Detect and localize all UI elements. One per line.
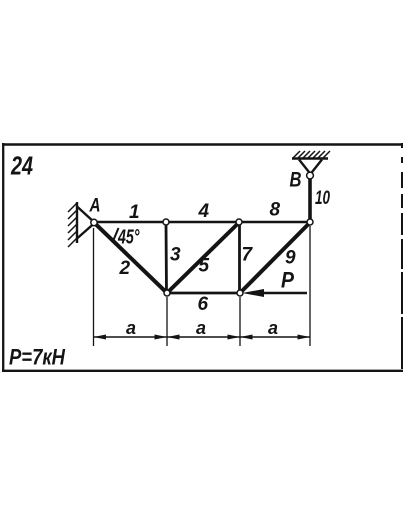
figure number 24 bbox=[10, 151, 33, 181]
member 10 (vertical B-T4) bbox=[308, 176, 312, 222]
member 2 (diagonal A-B1) bbox=[94, 223, 167, 294]
support link upper (wall to pin A) bbox=[77, 207, 94, 223]
svg-text:24: 24 bbox=[10, 151, 33, 181]
member label 7 bbox=[242, 245, 254, 266]
extension line below B2 bbox=[239, 297, 241, 346]
svg-text:5: 5 bbox=[199, 256, 210, 277]
svg-text:7: 7 bbox=[242, 245, 254, 266]
extension line below T4 bbox=[309, 226, 311, 346]
svg-text:1: 1 bbox=[129, 202, 140, 223]
member 1 (top chord A-T2) bbox=[94, 221, 166, 224]
member label 6 bbox=[198, 294, 209, 315]
member label 5 bbox=[199, 256, 210, 277]
support triangle at B bbox=[299, 160, 322, 175]
node A pin bbox=[91, 219, 97, 225]
dimension label a (middle) bbox=[196, 318, 206, 338]
support link lower (wall to pin A) bbox=[77, 224, 94, 239]
svg-text:P=7кН: P=7кН bbox=[9, 345, 66, 370]
member 6 (bottom chord B1-B2) bbox=[167, 292, 240, 295]
member 3 (vertical T2-B1) bbox=[165, 223, 168, 293]
dimension line bbox=[94, 336, 311, 338]
extension line below B1 bbox=[166, 297, 168, 346]
svg-text:a: a bbox=[196, 318, 206, 338]
ceiling hatching bbox=[293, 151, 330, 158]
node T2 bbox=[163, 219, 169, 225]
member label 2 bbox=[119, 258, 131, 279]
svg-text:45°: 45° bbox=[117, 227, 140, 249]
svg-text:a: a bbox=[268, 318, 278, 338]
node B pin bbox=[307, 172, 314, 179]
given value P=7kN bbox=[9, 345, 66, 370]
frame border right (dashed) bbox=[401, 143, 403, 372]
svg-text:2: 2 bbox=[119, 258, 131, 279]
member label 10 bbox=[315, 188, 330, 209]
member 7 (vertical T3-B2) bbox=[238, 223, 241, 293]
svg-text:a: a bbox=[126, 318, 136, 338]
frame border top bbox=[2, 143, 403, 146]
wall hatching bbox=[68, 203, 77, 247]
frame border bottom bbox=[2, 370, 403, 372]
svg-text:8: 8 bbox=[270, 200, 281, 221]
svg-text:3: 3 bbox=[170, 245, 181, 266]
member label 8 bbox=[270, 200, 281, 221]
node T3 bbox=[236, 219, 242, 225]
dimension label a (right) bbox=[268, 318, 278, 338]
node B1 bbox=[164, 290, 170, 296]
force P line bbox=[250, 292, 307, 295]
ceiling support at B (hatched line) bbox=[292, 157, 328, 159]
svg-text:B: B bbox=[290, 169, 302, 192]
node B2 bbox=[237, 290, 243, 296]
label B bbox=[290, 169, 302, 192]
member label 1 bbox=[129, 202, 140, 223]
frame border left bbox=[2, 143, 4, 372]
svg-text:A: A bbox=[89, 196, 101, 217]
angle label 45deg bbox=[117, 227, 140, 249]
node T4 bbox=[307, 219, 313, 225]
dimension label a (left) bbox=[126, 318, 136, 338]
svg-text:9: 9 bbox=[285, 248, 296, 269]
svg-text:P: P bbox=[281, 268, 294, 293]
member label 9 bbox=[285, 248, 296, 269]
member 9 (diagonal B2-T4) bbox=[240, 223, 310, 294]
svg-text:4: 4 bbox=[198, 201, 210, 222]
member label 4 bbox=[198, 201, 210, 222]
dimension arrowheads bbox=[94, 335, 311, 340]
member 5 (diagonal B1-T3) bbox=[167, 223, 239, 294]
wall support at A (vertical wall line) bbox=[76, 202, 78, 243]
force label P bbox=[281, 268, 294, 293]
force P arrowhead bbox=[242, 289, 264, 297]
svg-text:10: 10 bbox=[315, 188, 330, 209]
svg-text:6: 6 bbox=[198, 294, 209, 315]
extension line below A bbox=[93, 228, 95, 346]
member 8 (top chord T3-T4) bbox=[239, 221, 310, 224]
angle slash mark bbox=[114, 228, 119, 240]
member 4 (top chord T2-T3) bbox=[166, 221, 239, 224]
label A bbox=[89, 196, 101, 217]
member label 3 bbox=[170, 245, 181, 266]
